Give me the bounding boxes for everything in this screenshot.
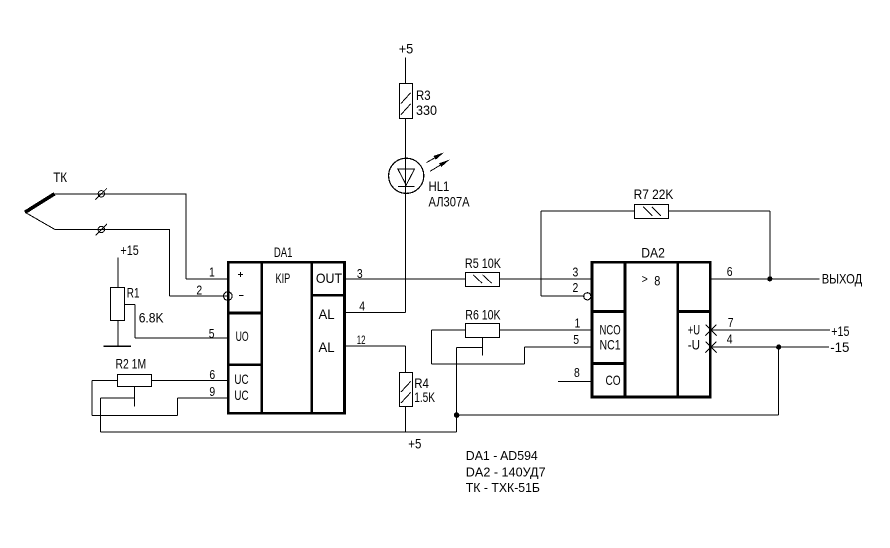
svg-text:KIP: KIP [276, 270, 291, 286]
svg-text:2: 2 [196, 283, 202, 298]
svg-text:UO: UO [236, 328, 249, 344]
svg-text:+5: +5 [399, 41, 414, 57]
svg-text:R2 1M: R2 1M [116, 355, 147, 371]
svg-text:OUT: OUT [316, 270, 343, 286]
svg-text:+U: +U [688, 321, 700, 337]
svg-text:DA1: DA1 [274, 244, 293, 260]
svg-text:1: 1 [209, 264, 215, 279]
svg-text:R7 22K: R7 22K [634, 186, 674, 202]
svg-text:DA2: DA2 [641, 244, 665, 260]
svg-text:+5: +5 [408, 435, 421, 451]
svg-text:6: 6 [209, 367, 215, 382]
svg-text:ТК - ТХК-51Б: ТК - ТХК-51Б [466, 480, 540, 495]
svg-text:1: 1 [575, 316, 581, 331]
svg-text:NCO: NCO [600, 321, 621, 337]
svg-text:4: 4 [727, 332, 733, 347]
svg-text:+15: +15 [831, 323, 849, 339]
svg-text:2: 2 [573, 280, 579, 295]
svg-text:330: 330 [416, 102, 437, 118]
svg-text:8: 8 [574, 365, 580, 380]
svg-text:4: 4 [359, 299, 365, 314]
svg-text:5: 5 [573, 332, 579, 347]
svg-text:7: 7 [728, 315, 734, 330]
svg-text:АЛ307А: АЛ307А [429, 194, 471, 210]
svg-text:1.5K: 1.5K [414, 389, 435, 405]
svg-text:R1: R1 [127, 285, 140, 301]
svg-text:5: 5 [209, 326, 215, 341]
svg-text:CO: CO [606, 372, 621, 388]
svg-text:+15: +15 [120, 242, 138, 258]
svg-text:>: > [642, 272, 648, 286]
svg-text:3: 3 [573, 265, 579, 280]
svg-text:AL: AL [319, 339, 335, 355]
svg-text:-15: -15 [830, 339, 849, 355]
svg-text:12: 12 [357, 333, 366, 347]
svg-text:3: 3 [357, 266, 363, 281]
svg-text:DA1 - AD594: DA1 - AD594 [466, 448, 538, 463]
svg-text:UC: UC [234, 387, 248, 403]
svg-text:UC: UC [234, 371, 248, 387]
svg-text:DA2 - 140УД7: DA2 - 140УД7 [466, 464, 546, 479]
svg-text:NC1: NC1 [600, 337, 621, 353]
svg-text:9: 9 [209, 384, 215, 399]
svg-text:HL1: HL1 [429, 178, 450, 194]
svg-text:ВЫХОД: ВЫХОД [822, 271, 863, 287]
svg-text:R6 10K: R6 10K [465, 307, 501, 323]
svg-text:ТК: ТК [53, 169, 68, 185]
svg-text:-U: -U [688, 337, 700, 353]
svg-text:6: 6 [727, 264, 733, 279]
svg-text:8: 8 [654, 272, 660, 288]
svg-text:AL: AL [319, 306, 335, 322]
svg-text:6.8K: 6.8K [139, 310, 164, 326]
svg-text:R5 10K: R5 10K [465, 255, 502, 271]
svg-text:R3: R3 [416, 87, 431, 103]
